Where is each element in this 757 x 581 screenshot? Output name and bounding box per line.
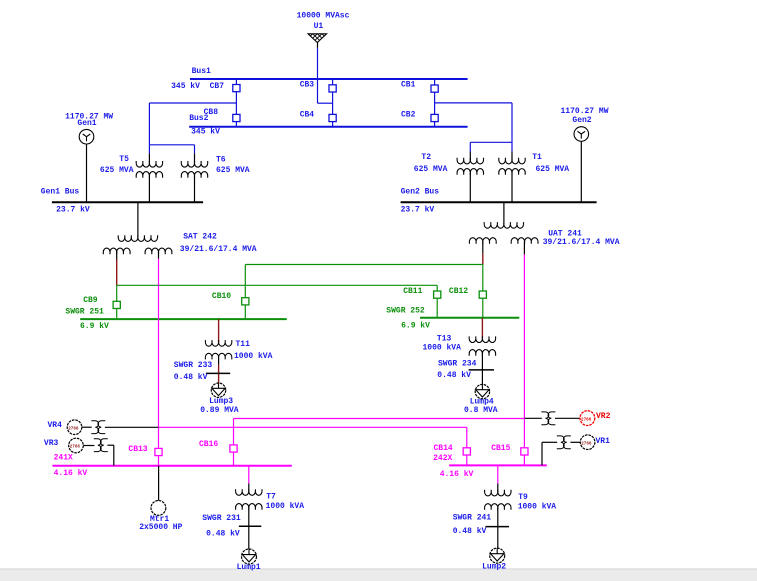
svg-text:6.9 kV: 6.9 kV xyxy=(80,322,109,331)
wire: string to T1/T2 riser xyxy=(435,102,512,104)
svg-text:242X: 242X xyxy=(433,454,452,463)
wire: T1 secondary stem xyxy=(511,173,513,203)
circuit breaker CB3 xyxy=(329,85,336,92)
transformer SAT 242 (3-winding) xyxy=(103,235,172,254)
circuit breaker CB9 xyxy=(113,301,120,308)
svg-text:CB7: CB7 xyxy=(210,82,225,91)
svg-text:CB2: CB2 xyxy=(401,111,416,120)
bus SWGR 252 6.9 kV xyxy=(420,317,519,319)
wire: T11 to Lump3 (maroon) xyxy=(218,365,220,383)
wire: Gen2 Bus to UAT 241 xyxy=(503,202,505,224)
wire: tie A 242X-feed to CB16 xyxy=(234,418,525,420)
svg-text:T9: T9 xyxy=(518,493,528,502)
svg-text:0.48 kV: 0.48 kV xyxy=(174,373,208,382)
wire: tie B 241X-feed to CB14 xyxy=(159,426,467,428)
wire: T1 primary stem xyxy=(511,152,513,161)
svg-text:39/21.6/17.4 MVA: 39/21.6/17.4 MVA xyxy=(180,245,257,254)
wire: T1/T2 split xyxy=(470,141,512,143)
wire: CB3/CB4 string xyxy=(332,79,334,127)
svg-text:SWGR 233: SWGR 233 xyxy=(174,361,213,370)
wire: T5/T6 riser xyxy=(148,103,150,145)
circuit breaker CB8 xyxy=(233,114,240,121)
svg-text:CB14: CB14 xyxy=(434,444,453,453)
svg-text:1000 kVA: 1000 kVA xyxy=(266,502,305,511)
svg-text:2766: 2766 xyxy=(68,426,79,431)
regulating transformer coil of VR1 xyxy=(557,436,571,449)
circuit breaker CB4 xyxy=(329,114,336,121)
svg-text:Lump1: Lump1 xyxy=(237,563,261,572)
wire: CB10 riser xyxy=(244,265,246,320)
generator Gen2 xyxy=(574,127,589,142)
bus SWGR 233 0.48 kV xyxy=(206,372,230,374)
voltage regulator VR3 xyxy=(69,438,84,453)
svg-text:2766: 2766 xyxy=(581,417,592,422)
wire: SAT right secondary stem xyxy=(158,252,160,259)
svg-text:0.48 kV: 0.48 kV xyxy=(437,371,471,380)
wire: VR3 to coil xyxy=(83,445,94,447)
wire: tie SAT to CB11 xyxy=(117,284,438,286)
svg-text:23.7 kV: 23.7 kV xyxy=(401,206,435,215)
wire: 241X to T7 (magenta) xyxy=(248,466,250,484)
svg-text:1000 kVA: 1000 kVA xyxy=(518,502,557,511)
wire: Gen1 to Gen1 Bus xyxy=(86,144,88,202)
svg-text:SWGR 241: SWGR 241 xyxy=(453,514,492,523)
bus SWGR 234 0.48 kV xyxy=(469,369,494,371)
wire: T5 drop blue xyxy=(148,145,150,154)
svg-text:Gen2 Bus: Gen2 Bus xyxy=(401,187,440,196)
svg-text:Lump3: Lump3 xyxy=(209,397,233,406)
wire: SAT left secondary stem xyxy=(116,252,118,260)
svg-text:23.7 kV: 23.7 kV xyxy=(56,205,90,214)
svg-text:CB16: CB16 xyxy=(199,440,218,449)
svg-text:2766: 2766 xyxy=(70,445,81,450)
wire: UAT right secondary to 242X (magenta) xyxy=(523,254,525,465)
bus SWGR 251 6.9 kV xyxy=(80,318,287,320)
lumped load Lump4 xyxy=(475,384,489,398)
wire: U1 stem xyxy=(317,43,319,48)
regulating transformer coil of VR2 xyxy=(541,412,555,425)
wire: T2 primary stem xyxy=(469,152,471,161)
circuit breaker CB1 xyxy=(431,85,438,92)
wire: UAT left secondary stem xyxy=(482,242,484,254)
svg-text:T13: T13 xyxy=(437,334,452,343)
wire: VR4 to coil xyxy=(82,426,92,428)
wire: CB9 drop xyxy=(116,285,118,319)
wire: T5/T6 split xyxy=(149,144,194,146)
svg-text:0.8 MVA: 0.8 MVA xyxy=(464,406,498,415)
wire: T6 drop blue xyxy=(194,145,196,154)
svg-text:0.89 MVA: 0.89 MVA xyxy=(200,406,239,415)
transformer T5 xyxy=(136,161,162,178)
svg-text:625 MVA: 625 MVA xyxy=(100,166,134,175)
wire: CB11 drop xyxy=(436,285,438,318)
wire: T2 drop blue xyxy=(469,142,471,151)
utility U1 xyxy=(308,34,327,43)
svg-text:VR2: VR2 xyxy=(596,412,611,421)
svg-text:SAT 242: SAT 242 xyxy=(183,232,217,241)
svg-text:625 MVA: 625 MVA xyxy=(414,165,448,174)
svg-text:4.16 kV: 4.16 kV xyxy=(440,470,474,479)
wire: T9 primary stem xyxy=(497,484,499,493)
wire: CB1/CB2 string xyxy=(434,79,436,127)
wire: VR4 coil to 241X feeder (black) xyxy=(105,426,159,428)
svg-text:2766: 2766 xyxy=(581,441,592,446)
motor Mtr1 xyxy=(151,501,166,516)
svg-text:CB10: CB10 xyxy=(212,292,231,301)
wire: T1 drop blue xyxy=(511,142,513,151)
svg-text:625 MVA: 625 MVA xyxy=(536,165,570,174)
bus 242X 4.16 kV xyxy=(449,464,547,466)
wire: CB16 drop xyxy=(233,419,235,466)
wire: VR3 drop to 241X xyxy=(113,445,115,466)
wire: VR3 coil out xyxy=(107,444,113,446)
wire: CB12 drop xyxy=(482,265,484,318)
svg-text:VR1: VR1 xyxy=(596,437,611,446)
svg-text:0.48 kV: 0.48 kV xyxy=(206,530,240,539)
transformer T2 xyxy=(457,158,483,175)
wire: 242X to T9 (magenta) xyxy=(497,465,499,483)
circuit breaker CB12 xyxy=(479,291,486,298)
svg-text:625 MVA: 625 MVA xyxy=(216,166,250,175)
bus Gen2 Bus 23.7 kV xyxy=(401,201,597,203)
svg-text:6.9 kV: 6.9 kV xyxy=(401,322,430,331)
svg-text:Gen1 Bus: Gen1 Bus xyxy=(41,188,80,197)
wire: T5 primary stem xyxy=(148,154,150,164)
wire: SAT right secondary to 241X (magenta) xyxy=(158,259,160,466)
wire: VR1 coil to circle xyxy=(570,441,580,443)
svg-text:T11: T11 xyxy=(236,340,251,349)
wire: 242X to VR1 coil xyxy=(542,441,557,443)
svg-text:SWGR 252: SWGR 252 xyxy=(386,307,425,316)
svg-text:1000 kVA: 1000 kVA xyxy=(234,352,273,361)
transformer T9 xyxy=(485,490,511,510)
wire: SWGR 252 to T13 xyxy=(481,318,483,339)
svg-text:CB4: CB4 xyxy=(300,110,315,119)
wire: SWGR 251 to T11 xyxy=(218,319,220,342)
svg-text:Gen1: Gen1 xyxy=(77,119,96,128)
bus SWGR 241 0.48 kV xyxy=(486,526,510,528)
window bottom strip xyxy=(0,569,757,581)
svg-text:U1: U1 xyxy=(314,22,324,31)
svg-text:10000 MVAsc: 10000 MVAsc xyxy=(297,12,350,21)
circuit breaker CB2 xyxy=(431,114,438,121)
voltage regulator VR4 xyxy=(67,420,82,435)
bus Bus1 345 kV xyxy=(190,78,468,80)
transformer T13 xyxy=(469,336,495,355)
lumped load Lump3 xyxy=(211,383,225,397)
circuit breaker CB13 xyxy=(155,448,162,455)
svg-text:4.16 kV: 4.16 kV xyxy=(54,469,88,478)
wire: UAT right secondary stem xyxy=(523,242,525,255)
transformer T7 xyxy=(236,489,262,510)
svg-text:SWGR 231: SWGR 231 xyxy=(202,514,241,523)
svg-text:CB15: CB15 xyxy=(491,444,510,453)
svg-text:VR4: VR4 xyxy=(48,421,63,430)
circuit breaker CB10 xyxy=(242,298,249,305)
wire: UAT left secondary feeder (maroon) xyxy=(482,254,484,265)
transformer T1 xyxy=(499,158,525,175)
svg-text:SWGR 251: SWGR 251 xyxy=(65,308,104,317)
svg-text:2x5000 HP: 2x5000 HP xyxy=(139,523,182,532)
wire: T5 secondary stem xyxy=(148,176,150,203)
svg-text:345 kV: 345 kV xyxy=(191,127,220,136)
circuit breaker CB15 xyxy=(521,448,528,455)
circuit breaker CB11 xyxy=(434,291,441,298)
generator Gen1 xyxy=(79,129,94,144)
bus SWGR 231 0.48 kV xyxy=(239,525,261,527)
transformer T6 xyxy=(181,161,207,178)
wire: T2 secondary stem xyxy=(469,173,471,203)
wire: T9 to Lump2 xyxy=(497,508,499,548)
svg-text:Gen2: Gen2 xyxy=(572,116,591,125)
wire: T6 primary stem xyxy=(194,154,196,164)
svg-text:345 kV: 345 kV xyxy=(171,82,200,91)
bus Bus2 345 kV xyxy=(189,126,467,128)
svg-text:T6: T6 xyxy=(216,155,226,164)
svg-text:T2: T2 xyxy=(421,153,431,162)
wire: T7 primary stem xyxy=(248,484,250,492)
svg-text:T1: T1 xyxy=(532,153,542,162)
wire: jog to CB3/CB4 midpoint xyxy=(318,102,333,104)
circuit breaker CB7 xyxy=(233,85,240,92)
svg-text:0.48 kV: 0.48 kV xyxy=(453,527,487,536)
wire: string to T5/T6 riser xyxy=(149,102,236,104)
wire: T6 secondary stem xyxy=(194,176,196,203)
wire: VR1 riser at 242X xyxy=(541,442,543,465)
svg-text:SWGR 234: SWGR 234 xyxy=(438,359,477,368)
svg-text:1000 kVA: 1000 kVA xyxy=(423,343,462,352)
svg-text:T5: T5 xyxy=(119,155,129,164)
lumped load Lump1 xyxy=(242,549,257,564)
circuit breaker CB16 xyxy=(230,445,237,452)
wire: Gen2 to Gen2 Bus xyxy=(580,141,582,202)
svg-text:Lump2: Lump2 xyxy=(482,562,506,571)
wire: T11 secondary stem xyxy=(218,357,220,365)
svg-text:39/21.6/17.4 MVA: 39/21.6/17.4 MVA xyxy=(543,238,620,247)
bus Gen1 Bus 23.7 kV xyxy=(52,201,203,203)
wire: U1 to breaker string xyxy=(317,48,319,103)
svg-text:CB1: CB1 xyxy=(401,80,416,89)
wire: Gen1 Bus to SAT 242 xyxy=(137,202,139,237)
svg-text:Bus2: Bus2 xyxy=(189,114,208,123)
bus 241X 4.16 kV xyxy=(53,465,292,467)
wire: CB7/CB8 string xyxy=(235,79,237,127)
wire: T1/T2 riser xyxy=(511,103,513,142)
wire: VR2 coil to circle xyxy=(555,417,580,419)
wire: tie UAT to CB10 xyxy=(245,264,482,266)
regulating transformer coil of VR4 xyxy=(91,421,105,434)
svg-text:CB3: CB3 xyxy=(300,80,315,89)
circuit breaker CB14 xyxy=(463,448,470,455)
svg-text:Lump4: Lump4 xyxy=(470,397,494,406)
svg-text:CB9: CB9 xyxy=(83,296,98,305)
svg-text:Bus1: Bus1 xyxy=(192,67,211,76)
transformer T11 xyxy=(205,340,231,359)
svg-text:CB11: CB11 xyxy=(403,287,422,296)
svg-text:CB13: CB13 xyxy=(128,445,147,454)
wire: SAT left secondary feeder (maroon) xyxy=(116,260,118,286)
regulating transformer coil of VR3 xyxy=(94,439,108,452)
wire: T7 to Lump1 xyxy=(248,508,250,550)
svg-text:241X: 241X xyxy=(54,454,73,463)
lumped load Lump2 xyxy=(490,548,505,563)
wire: 241X to Mtr1 xyxy=(158,466,160,501)
wire: 242X feeder to VR2 coil xyxy=(524,417,541,419)
svg-text:T7: T7 xyxy=(266,493,276,502)
transformer UAT 241 (3-winding) xyxy=(469,222,538,244)
svg-text:VR3: VR3 xyxy=(44,439,59,448)
wire: T13 to Lump4 xyxy=(481,354,483,385)
wire: CB14 drop xyxy=(466,427,468,465)
svg-text:CB12: CB12 xyxy=(449,287,468,296)
